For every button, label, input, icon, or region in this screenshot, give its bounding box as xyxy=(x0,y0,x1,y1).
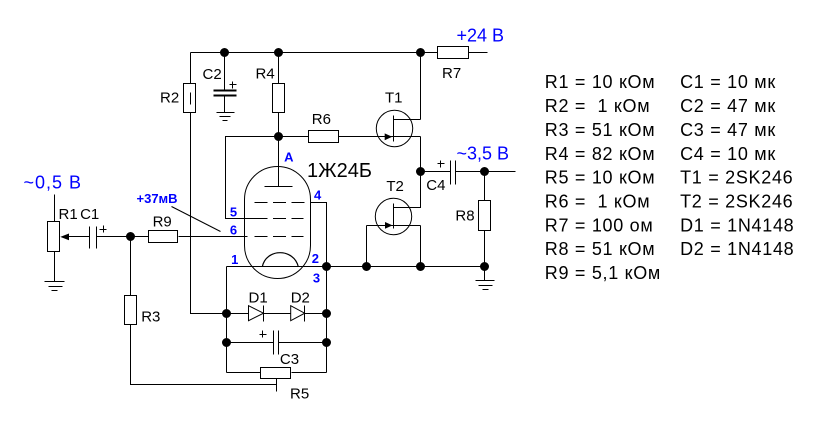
svg-text:C1 = 10 мк: C1 = 10 мк xyxy=(680,72,776,92)
svg-text:C3: C3 xyxy=(280,351,299,368)
node junction T2 source xyxy=(417,263,425,271)
wire junction to grid2 (pin 5) xyxy=(226,137,279,219)
wire pin4 to cathode xyxy=(312,203,327,267)
diode D1 xyxy=(227,313,249,315)
svg-text:+24 В: +24 В xyxy=(457,26,505,46)
svg-text:R5 = 10 кОм: R5 = 10 кОм xyxy=(545,168,656,188)
wire R1 bottom xyxy=(54,252,56,282)
svg-text:C2: C2 xyxy=(203,66,222,83)
ground below R8 xyxy=(484,267,486,281)
resistor R6 xyxy=(279,136,309,138)
svg-text:4: 4 xyxy=(314,188,322,203)
svg-text:T2: T2 xyxy=(386,178,404,195)
svg-text:D2 = 1N4148: D2 = 1N4148 xyxy=(680,239,794,259)
wire D2 to right rail xyxy=(305,313,327,315)
wire top +24V rail xyxy=(191,52,438,54)
tube anode lead xyxy=(278,137,280,187)
node junction C3 right xyxy=(323,339,331,347)
tube cathode arch xyxy=(262,253,298,267)
wire input lead xyxy=(54,195,56,222)
value table column 1 xyxy=(545,72,661,283)
wire C4 junction to T2 drain xyxy=(394,172,421,208)
node junction output xyxy=(481,168,489,176)
svg-text:R5: R5 xyxy=(290,385,309,402)
node junction input xyxy=(127,233,135,241)
svg-text:T1: T1 xyxy=(385,90,403,107)
tube grid rows xyxy=(255,202,312,204)
svg-text:2: 2 xyxy=(312,251,319,266)
svg-text:R9 = 5,1 кОм: R9 = 5,1 кОм xyxy=(545,263,661,283)
svg-text:5: 5 xyxy=(230,205,237,220)
svg-text:R4: R4 xyxy=(256,65,275,82)
svg-text:C1: C1 xyxy=(80,206,99,223)
svg-text:T1 = 2SK246: T1 = 2SK246 xyxy=(680,168,793,188)
svg-text:+37мВ: +37мВ xyxy=(137,191,178,206)
value table column 2 xyxy=(680,72,794,259)
node junction D1 xyxy=(223,310,231,318)
node junction T1 drain on rail xyxy=(417,49,425,57)
svg-text:R9: R9 xyxy=(153,214,172,231)
node junction C2 xyxy=(221,49,229,57)
capacitor C2 xyxy=(224,53,226,90)
svg-text:6: 6 xyxy=(230,223,237,238)
wire D1 to D2 xyxy=(264,313,291,315)
svg-text:T2 = 2SK246: T2 = 2SK246 xyxy=(680,192,793,212)
node junction T2 gate xyxy=(363,263,371,271)
svg-text:D2: D2 xyxy=(291,290,310,307)
wire R2 bottom long lead xyxy=(191,113,227,314)
node junction pin4/cathode xyxy=(323,263,331,271)
svg-text:R3 = 51 кОм: R3 = 51 кОм xyxy=(545,120,656,140)
svg-text:R2: R2 xyxy=(160,90,179,107)
node anode junction xyxy=(275,133,283,141)
wire T1 source down xyxy=(420,137,422,172)
svg-text:R3: R3 xyxy=(141,309,160,326)
resistor R8 xyxy=(484,172,486,201)
resistor R9 xyxy=(131,236,149,238)
ground below R1 xyxy=(45,281,65,283)
wire T1 drain to +24V rail xyxy=(420,53,422,120)
svg-text:C4 = 10 мк: C4 = 10 мк xyxy=(680,144,776,164)
potentiometer R1 xyxy=(48,222,60,252)
wire left vertical rail xyxy=(226,314,228,373)
capacitor C1 xyxy=(89,227,91,249)
svg-text:R1 = 10 кОм: R1 = 10 кОм xyxy=(545,72,656,92)
wire R4 bottom lead xyxy=(278,113,280,137)
wire R9 to pin 6 xyxy=(179,236,248,238)
svg-text:1: 1 xyxy=(231,252,238,267)
wire T2 gate down xyxy=(366,226,368,267)
wiper arrow xyxy=(65,236,90,238)
node junction C3 left xyxy=(223,339,231,347)
svg-text:~0,5 В: ~0,5 В xyxy=(24,173,83,193)
transistor T1 xyxy=(376,110,412,146)
wire R6 to T1 gate xyxy=(339,136,421,138)
svg-text:А: А xyxy=(284,150,294,165)
svg-text:3: 3 xyxy=(313,271,320,286)
svg-text:R6 = 1 кОм: R6 = 1 кОм xyxy=(545,192,651,212)
svg-text:R7 = 100 ом: R7 = 100 ом xyxy=(545,215,654,235)
resistor R5 xyxy=(227,372,261,374)
resistor R2 xyxy=(184,84,196,113)
svg-text:R1: R1 xyxy=(59,206,78,223)
transistor T2 xyxy=(375,198,411,234)
node junction R4 xyxy=(275,49,283,57)
capacitor C3 xyxy=(227,342,274,344)
svg-text:R2 = 1 кОм: R2 = 1 кОм xyxy=(545,96,651,116)
wire cathode rail xyxy=(227,266,485,268)
diode D2 xyxy=(291,306,305,321)
node junction C4 xyxy=(417,168,425,176)
node junction R8 bottom xyxy=(481,263,489,271)
tube U1 envelope 1Ж24Б xyxy=(245,167,311,279)
svg-text:~3,5 В: ~3,5 В xyxy=(457,144,510,164)
wire output stub xyxy=(485,171,516,173)
svg-text:D1 = 1N4148: D1 = 1N4148 xyxy=(680,215,794,235)
svg-text:R8: R8 xyxy=(455,207,474,224)
capacitor C4 xyxy=(421,171,451,173)
svg-text:D1: D1 xyxy=(249,290,268,307)
wire R7 right stub xyxy=(469,52,488,54)
svg-text:1Ж24Б: 1Ж24Б xyxy=(307,160,372,182)
svg-text:R8 = 51 кОм: R8 = 51 кОм xyxy=(545,239,656,259)
resistor R4 xyxy=(278,53,280,84)
resistor R7 xyxy=(438,47,469,59)
svg-text:C4: C4 xyxy=(426,177,445,194)
svg-text:R6: R6 xyxy=(312,111,331,128)
svg-text:R4 = 82 кОм: R4 = 82 кОм xyxy=(545,144,656,164)
wire R3 bottom lead xyxy=(131,325,277,385)
node junction D2 xyxy=(323,310,331,318)
svg-text:R7: R7 xyxy=(442,65,461,82)
wire right vertical rail xyxy=(326,267,328,373)
svg-text:C2 = 47 мк: C2 = 47 мк xyxy=(680,96,776,116)
wire pin1 down xyxy=(226,267,228,314)
wire R2 top lead xyxy=(190,53,192,84)
resistor R3 xyxy=(130,237,132,296)
wire pointer line xyxy=(172,207,221,232)
wire R5 tap stub xyxy=(276,379,278,392)
svg-text:C3 = 47 мк: C3 = 47 мк xyxy=(680,120,776,140)
wire T2 source down xyxy=(420,226,422,267)
ground below C2 xyxy=(217,112,235,114)
